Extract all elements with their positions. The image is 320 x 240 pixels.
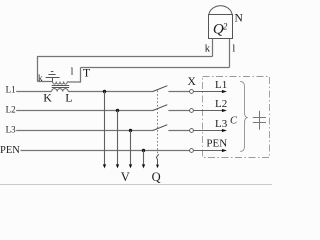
meter lead l	[229, 39, 231, 68]
wire L2 switch to X	[168, 110, 189, 112]
terminal circle L2	[190, 109, 194, 113]
svg-text:V: V	[121, 170, 130, 184]
svg-text:X: X	[188, 76, 197, 88]
feeder arrow PEN	[193, 150, 222, 152]
transformer T primary winding K-L	[52, 89, 69, 92]
bus wire A (CT secondary k to meter k)	[38, 57, 213, 82]
svg-text:C: C	[230, 116, 238, 127]
tap junction L2	[116, 109, 119, 112]
tap wire V1	[104, 92, 106, 165]
svg-text:l: l	[71, 67, 74, 78]
switch Q pole L3 blade	[153, 125, 168, 131]
wire secondary l to bus B	[67, 68, 80, 83]
svg-text:k: k	[205, 43, 211, 54]
brace grouping feeders to C	[240, 81, 248, 151]
terminal circle PEN	[190, 149, 194, 153]
svg-text:N: N	[235, 13, 244, 25]
svg-text:L2: L2	[215, 98, 227, 110]
meter Q2 body	[209, 15, 233, 39]
wire L1 to switch	[68, 91, 153, 93]
transformer T secondary winding	[53, 82, 68, 85]
tap junction PEN	[142, 149, 145, 152]
svg-text:PEN: PEN	[206, 138, 227, 150]
switch Q pole L2 blade	[153, 105, 168, 111]
outgoing feeder dash-dot box	[203, 77, 270, 158]
tap junction L3	[129, 129, 132, 132]
wire PEN	[21, 150, 190, 152]
svg-text:L2: L2	[6, 105, 16, 115]
svg-text:L3: L3	[215, 118, 228, 130]
svg-text:K: K	[43, 90, 52, 104]
wire L3	[16, 130, 153, 132]
feeder arrow L2	[193, 110, 222, 112]
tap wire V2	[117, 111, 119, 165]
svg-text:k: k	[38, 73, 43, 83]
wire L1 switch to X	[168, 91, 189, 93]
capacitor C (line-to-earth capacitance)	[253, 111, 266, 130]
page rule at bottom	[0, 184, 272, 186]
transformer core bars	[52, 86, 69, 88]
svg-text:L: L	[65, 90, 72, 104]
meter lead k	[212, 39, 214, 57]
meter Q2 (maximum demand meter) dome	[209, 6, 232, 15]
svg-text:l: l	[232, 43, 235, 54]
wire L1 left	[16, 91, 51, 93]
feeder arrow L3	[193, 130, 222, 132]
terminal circle L1	[190, 90, 194, 94]
switch Q pole L1 blade	[153, 86, 168, 92]
feeder arrow L1	[193, 91, 222, 93]
svg-text:Q: Q	[152, 170, 161, 184]
bus wire B (CT secondary l to meter l)	[81, 67, 230, 69]
switch Q actuator squiggle	[156, 154, 158, 165]
switch Q gang link (dashed)	[157, 91, 159, 154]
wire k horizontal	[38, 81, 53, 83]
svg-text:L3: L3	[6, 125, 16, 135]
tap wire V3	[130, 131, 132, 165]
wire L3 switch to X	[168, 130, 189, 132]
tap junction L1	[103, 90, 106, 93]
svg-text:PEN: PEN	[0, 145, 20, 156]
svg-text:2: 2	[223, 22, 228, 32]
terminal circle L3	[190, 129, 194, 133]
ground (inverted earth on CT secondary)	[46, 72, 60, 82]
wire L2	[16, 110, 153, 112]
svg-text:L1: L1	[215, 79, 227, 91]
svg-text:L1: L1	[6, 85, 16, 95]
tap wire V4	[143, 151, 145, 165]
